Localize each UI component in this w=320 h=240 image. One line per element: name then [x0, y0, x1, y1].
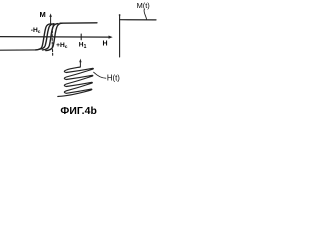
svg-text:+Hc: +Hc	[56, 42, 68, 50]
inset leader line	[144, 10, 147, 20]
dashed magnetization curve	[52, 24, 53, 57]
inset M(t) vertical axis	[119, 14, 121, 57]
coil H(t)	[58, 67, 94, 97]
inset M(t) level line	[120, 19, 156, 21]
svg-text:ФИГ.4b: ФИГ.4b	[60, 106, 97, 117]
top saturation line	[60, 22, 97, 24]
svg-text:H: H	[103, 41, 108, 48]
hysteresis loop branch 3 (inner right)	[43, 24, 59, 50]
svg-text:M: M	[40, 10, 46, 19]
svg-text:H(t): H(t)	[107, 74, 120, 83]
leader to H(t) label	[94, 72, 106, 78]
tick H1	[80, 34, 82, 40]
M axis	[49, 13, 52, 25]
svg-text:H1: H1	[79, 41, 87, 50]
H axis	[0, 36, 113, 39]
hysteresis loop branch 2 (inner left)	[39, 24, 54, 50]
hysteresis loop branch 4 (outer right)	[46, 23, 62, 50]
svg-text:-Hc: -Hc	[31, 27, 41, 35]
coil arrow	[79, 59, 81, 67]
svg-text:M(t): M(t)	[137, 1, 150, 10]
lower saturation line	[0, 49, 37, 51]
hysteresis loop branch 1 (outer left)	[36, 24, 52, 50]
